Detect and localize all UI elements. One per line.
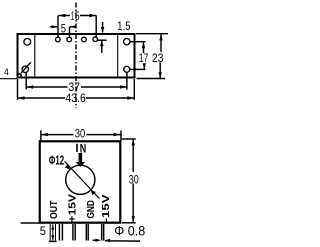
- pin 4 (front view): [85, 224, 87, 241]
- dimension 5 line: [50, 26, 58, 28]
- dimension 37 extension lines: [25, 73, 27, 90]
- svg-text:OUT: OUT: [49, 201, 60, 220]
- dimension Phi0.8 right arrow and leader: [104, 239, 110, 242]
- dimension 30 top line and arrows: [41, 134, 74, 136]
- bottom edge extension to left: [0, 78, 17, 80]
- leader diagonal through bottom-left hole: [21, 62, 31, 73]
- dimension 1.5 up arrow: [101, 41, 103, 54]
- dimension 30 right line and arrows: [132, 139, 134, 172]
- svg-text:5: 5: [40, 224, 46, 238]
- dimension Phi0.8 left arrow: [93, 239, 98, 241]
- dimension 1.5 down arrow: [102, 22, 104, 33]
- svg-text:17: 17: [139, 53, 149, 65]
- dimension 23 extension lines: [136, 33, 168, 35]
- svg-text:30: 30: [129, 175, 139, 187]
- svg-text:4: 4: [4, 67, 9, 78]
- mounting hole bottom-right: [124, 66, 130, 72]
- big circle (front view): [66, 165, 95, 194]
- extension line pin1: [57, 16, 59, 38]
- svg-text:23: 23: [152, 53, 164, 65]
- pin 3 circle (top view): [82, 37, 87, 42]
- N marking text: [76, 144, 78, 152]
- pin 4 circle (top view): [93, 37, 98, 42]
- extension line pin2: [69, 27, 71, 38]
- pin 3 (front view): [72, 224, 74, 241]
- left flange inner line: [34, 35, 36, 78]
- pin 2 (front view): [58, 224, 60, 241]
- module body outline (front view): [40, 141, 121, 222]
- N thick arrow: [79, 153, 83, 162]
- right flange inner line: [117, 35, 119, 78]
- extension line pin4: [95, 15, 97, 36]
- dimension 43.6 line and arrows: [18, 97, 66, 99]
- svg-text:5: 5: [61, 24, 66, 36]
- small corner circle: [18, 74, 22, 78]
- dimension 23 line and arrows: [160, 34, 162, 52]
- svg-text:+15V: +15V: [68, 194, 79, 223]
- pin 2 circle (top view): [67, 37, 72, 42]
- dimension 30 right extension lines: [122, 138, 136, 140]
- leader arrowheads: [65, 164, 70, 169]
- centerline of package (dash-dot): [75, 3, 77, 109]
- extension from pin4: [97, 39, 106, 41]
- pin 1 (front view): [49, 224, 51, 241]
- dimension 15 line: [58, 15, 70, 17]
- dimension 5 (pin length) extension lines: [21, 222, 40, 224]
- svg-text:43.6: 43.6: [65, 93, 86, 105]
- svg-text:Φ 0.8: Φ 0.8: [114, 223, 145, 238]
- dimension 5 (pin length) line and arrows: [52, 224, 54, 240]
- dimension 43.6 extension lines: [17, 79, 19, 100]
- mounting hole top-left: [24, 38, 31, 45]
- mounting hole bottom-left: [22, 66, 28, 72]
- svg-text:-15V: -15V: [100, 194, 112, 222]
- leader line through circle: [65, 161, 100, 198]
- dimension 17 line and arrows: [143, 42, 145, 53]
- svg-text:30: 30: [75, 128, 86, 140]
- svg-text:5: 5: [75, 11, 80, 23]
- dimension 17 extension lines: [130, 41, 146, 43]
- module body outline (top view): [18, 34, 135, 78]
- dimension 30 top extension lines: [40, 130, 42, 141]
- svg-text:1.5: 1.5: [117, 21, 131, 33]
- pin 1 circle (top view): [56, 37, 61, 42]
- mounting hole top-right: [124, 38, 130, 44]
- svg-text:1: 1: [71, 11, 74, 23]
- svg-text:GND: GND: [86, 200, 97, 219]
- svg-text:Φ12: Φ12: [49, 154, 64, 168]
- dimension 37 line and arrows: [26, 86, 67, 88]
- pin 5 (front view): [101, 224, 103, 241]
